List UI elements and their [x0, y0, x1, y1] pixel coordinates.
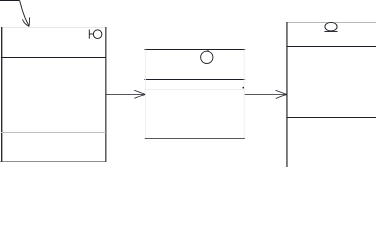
block A left edge — [1, 27, 3, 162]
block C lower divider — [286, 117, 376, 119]
block B right edge (gray) — [243, 50, 245, 139]
arrowhead at block C — [276, 90, 287, 98]
wire: arrow from block A to block B — [106, 94, 145, 96]
block A top edge (gray) — [1, 27, 106, 29]
block B header bottom edge — [144, 79, 245, 81]
wire: incoming arrow shaft (top-left) — [0, 1, 29, 27]
block C top edge (gray) — [286, 22, 376, 24]
block B bottom edge — [145, 138, 245, 140]
block B inner gridline (gray) — [145, 89, 244, 91]
block B header top edge — [144, 49, 245, 51]
block B port circle (lollipop under header line) — [201, 50, 213, 64]
block A inner gridline (gray) — [1, 132, 106, 134]
junction dot on block B right gridline — [243, 87, 245, 89]
block C left edge — [286, 22, 288, 167]
block A right edge — [105, 27, 107, 162]
block B left edge (gray) — [145, 50, 147, 139]
block C port icon (ellipse on base line) — [324, 22, 337, 31]
arrowhead at block B — [134, 90, 145, 98]
block A header divider — [1, 57, 106, 59]
block C header divider — [286, 46, 376, 48]
arrowhead into block A — [22, 17, 29, 26]
wire: arrow from block B to block C — [245, 94, 287, 96]
block A bottom edge — [0, 161, 106, 163]
block A interface icon (lollipop) — [89, 30, 102, 39]
